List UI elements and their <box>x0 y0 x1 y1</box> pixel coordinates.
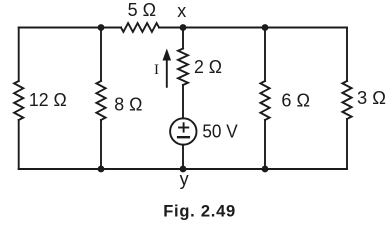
svg-text:6 Ω: 6 Ω <box>281 90 310 110</box>
resistor 5 ohm <box>121 23 159 32</box>
wire source to node y <box>182 145 184 169</box>
svg-text:y: y <box>180 169 189 189</box>
wire node x to 2 ohm <box>182 28 184 49</box>
svg-text:12 Ω: 12 Ω <box>29 90 67 110</box>
current arrow I shaft <box>166 59 168 87</box>
resistor 2 ohm <box>178 49 188 86</box>
svg-text:I: I <box>154 62 159 78</box>
resistor 12 ohm <box>14 81 23 120</box>
svg-text:x: x <box>177 1 186 21</box>
svg-text:3 Ω: 3 Ω <box>357 88 386 108</box>
source polarity plus-minus symbol <box>177 122 190 137</box>
svg-text:5 Ω: 5 Ω <box>128 0 156 20</box>
wire left edge top <box>18 28 20 82</box>
resistor 6 ohm <box>260 81 269 120</box>
current arrow I head <box>163 49 172 61</box>
wire bottom rail <box>19 168 347 170</box>
node y dot <box>180 166 187 173</box>
wire left edge bottom <box>18 120 20 169</box>
wire 6 ohm branch bottom <box>264 120 266 169</box>
junction dot top 6 ohm <box>262 24 269 31</box>
resistor 3 ohm <box>342 81 351 119</box>
wire 8 ohm branch top <box>100 28 102 82</box>
wire top rail left segment <box>19 27 121 29</box>
junction dot bottom 6 ohm <box>262 166 269 173</box>
resistor 8 ohm <box>96 81 105 120</box>
svg-text:Fig. 2.49: Fig. 2.49 <box>163 202 236 220</box>
wire 8 ohm branch bottom <box>100 120 102 169</box>
junction dot top 8 ohm <box>98 24 105 31</box>
junction dot bottom 8 ohm <box>98 166 105 173</box>
wire 2 ohm to source <box>182 85 184 118</box>
svg-text:8 Ω: 8 Ω <box>114 95 142 115</box>
svg-text:2 Ω: 2 Ω <box>194 57 222 77</box>
wire 6 ohm branch top <box>264 28 266 82</box>
svg-text:50 V: 50 V <box>202 122 237 142</box>
wire top rail right segment <box>159 27 347 29</box>
wire right edge top <box>346 28 348 82</box>
node x dot <box>180 24 187 31</box>
wire right edge bottom <box>346 119 348 169</box>
voltage source 50V circle <box>170 118 196 144</box>
